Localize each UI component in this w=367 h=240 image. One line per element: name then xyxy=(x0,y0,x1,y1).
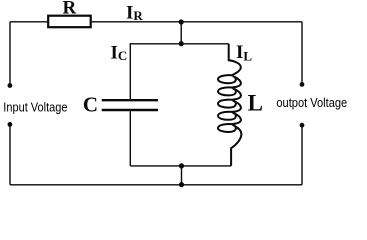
svg-text:C: C xyxy=(83,93,98,117)
wire left rail upper xyxy=(9,22,11,85)
svg-text:R: R xyxy=(63,0,77,19)
wire junction stub top xyxy=(180,22,182,44)
wire tank bottom connector xyxy=(130,165,231,167)
input terminal top dot xyxy=(7,83,12,88)
junction dot bottom rail xyxy=(179,182,184,187)
svg-text:L: L xyxy=(248,91,263,116)
resistor R xyxy=(48,16,90,28)
wire junction stub bottom xyxy=(181,166,183,185)
svg-text:IC: IC xyxy=(111,43,128,64)
wire bottom rail xyxy=(10,184,302,186)
junction dot tank top xyxy=(179,41,184,46)
capacitor C bottom plate xyxy=(102,109,158,111)
output terminal bottom dot xyxy=(300,123,305,128)
wire tank top xyxy=(130,44,228,100)
wire capacitor lower xyxy=(129,111,131,166)
svg-text:outpot Voltage: outpot Voltage xyxy=(276,95,347,110)
capacitor C top plate xyxy=(102,99,158,101)
wire top rail xyxy=(10,21,302,23)
svg-text:Input Voltage: Input Voltage xyxy=(3,99,67,114)
input terminal bottom dot xyxy=(7,122,12,127)
junction dot top rail xyxy=(179,19,184,24)
wire right rail upper xyxy=(301,22,303,82)
junction dot tank bottom xyxy=(179,163,184,168)
wire left rail lower xyxy=(9,124,11,184)
wire right rail lower xyxy=(301,125,303,185)
svg-text:IL: IL xyxy=(236,42,252,64)
output terminal top dot xyxy=(300,82,305,87)
inductor L coil xyxy=(218,44,241,166)
svg-text:IR: IR xyxy=(126,2,143,23)
